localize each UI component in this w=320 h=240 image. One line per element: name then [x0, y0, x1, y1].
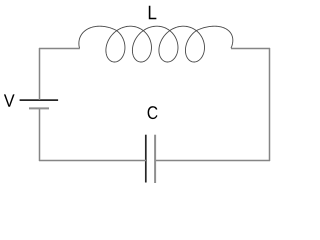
- inductor L (coil): [79, 26, 233, 62]
- label V: [4, 94, 15, 106]
- battery V top plate: [20, 99, 59, 101]
- capacitor C right plate: [154, 135, 156, 183]
- label L: [149, 6, 157, 19]
- wire bottom-left segment: [39, 160, 146, 162]
- wire top-right segment: [231, 48, 270, 50]
- battery V bottom plate: [29, 107, 49, 109]
- wire top-left segment: [39, 48, 80, 50]
- capacitor C left plate: [145, 135, 147, 183]
- wire bottom-right segment: [155, 160, 270, 162]
- wire left lower segment: [39, 108, 41, 161]
- label C: [148, 106, 158, 119]
- wire right side: [269, 48, 271, 161]
- wire left upper segment: [39, 48, 41, 100]
